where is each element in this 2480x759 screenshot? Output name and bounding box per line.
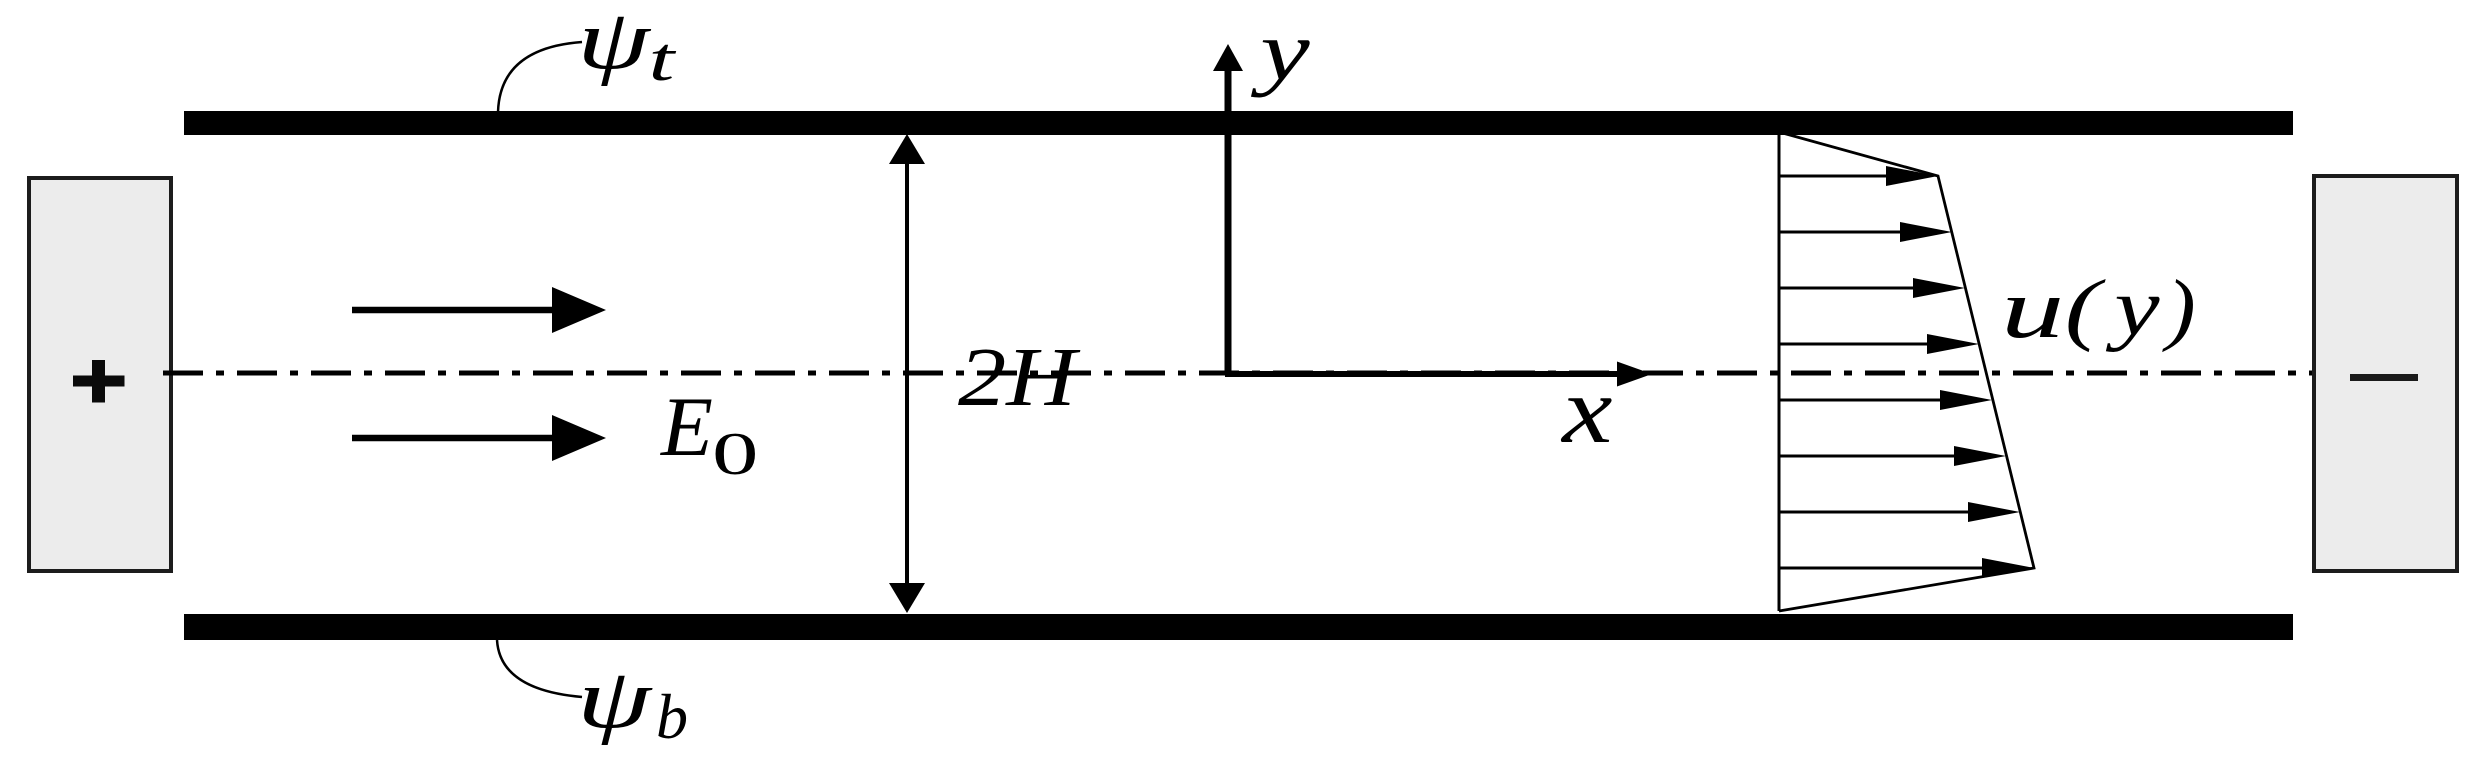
leader curve top xyxy=(498,42,582,112)
dimension arrow 2H xyxy=(889,134,925,613)
bottom wall plate xyxy=(184,614,2293,640)
svg-text:x: x xyxy=(1560,357,1612,463)
top wall plate xyxy=(184,111,2293,135)
svg-text:0: 0 xyxy=(712,420,758,487)
E-field arrow lower xyxy=(352,415,606,461)
E-field arrow upper xyxy=(352,287,606,333)
svg-text:y: y xyxy=(2106,262,2161,353)
svg-text:b: b xyxy=(656,681,688,752)
profile arrow 3 xyxy=(1780,278,1965,298)
label psi_b xyxy=(577,652,688,752)
svg-text:ψ: ψ xyxy=(577,652,653,746)
svg-text:u: u xyxy=(2001,262,2064,356)
profile arrow 2 xyxy=(1780,222,1952,242)
profile arrow 6 xyxy=(1780,446,2006,466)
label psi_t xyxy=(577,0,677,94)
x axis xyxy=(1225,362,1652,387)
plus sign xyxy=(73,360,125,403)
y axis xyxy=(1213,44,1243,374)
profile arrow 1 xyxy=(1780,166,1938,186)
electrode right (cathode) xyxy=(2314,176,2457,571)
velocity profile envelope xyxy=(1779,132,2034,611)
velocity profile baseline xyxy=(1778,132,1781,611)
svg-text:): ) xyxy=(2162,265,2195,353)
label u(y) xyxy=(2001,262,2196,356)
profile arrow 5 xyxy=(1780,390,1992,410)
profile arrow 8 xyxy=(1780,558,2034,578)
profile arrow 7 xyxy=(1780,502,2020,522)
svg-text:2H: 2H xyxy=(958,330,1081,424)
minus sign xyxy=(2350,374,2418,381)
electrode left (anode) xyxy=(29,178,171,571)
centerline (dash-dot axis) xyxy=(163,371,2312,376)
svg-text:E: E xyxy=(660,380,713,474)
svg-text:t: t xyxy=(649,26,677,94)
svg-text:ψ: ψ xyxy=(577,0,651,87)
profile arrow 4 xyxy=(1780,334,1979,354)
leader curve bottom xyxy=(497,640,582,697)
